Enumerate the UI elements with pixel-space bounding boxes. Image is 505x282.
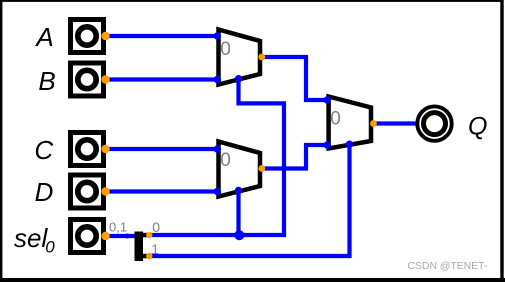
svg-text:B: B: [38, 66, 55, 96]
input pin B: [71, 63, 104, 96]
node splitter input anchor: [125, 234, 130, 239]
svg-text:A: A: [34, 22, 53, 52]
wire from pin D to U2 input 1: [105, 189, 217, 193]
node splitter bit 0: [146, 232, 152, 238]
wire U2 output to U3 input 1: [262, 145, 329, 169]
node U3 input 0: [324, 96, 331, 103]
multiplexer U3: [329, 97, 371, 149]
multiplexer U1: [219, 30, 261, 85]
node U3 select: [346, 141, 353, 148]
wire U2 select branch: [236, 189, 240, 236]
svg-text:0: 0: [220, 150, 231, 171]
node U1 input 0: [214, 32, 221, 39]
svg-text:1: 1: [151, 241, 159, 257]
splitter SP1: [135, 232, 148, 262]
svg-text:0,1: 0,1: [109, 219, 127, 234]
svg-text:0: 0: [152, 219, 160, 235]
node pin A output: [101, 32, 109, 40]
svg-text:C: C: [34, 135, 53, 165]
node pin B output: [101, 75, 109, 83]
node pin C output: [101, 145, 109, 153]
wire from pin sel0 to splitter SP1: [105, 234, 140, 238]
svg-text:D: D: [35, 177, 54, 207]
input pin D: [71, 175, 104, 208]
svg-text:CSDN @TENET-: CSDN @TENET-: [408, 261, 488, 272]
svg-text:0: 0: [330, 109, 341, 130]
output pin Q: [417, 106, 451, 140]
wire from pin B to U1 input 1: [105, 77, 217, 81]
node U3 input 1: [324, 141, 331, 148]
input pin C: [71, 133, 104, 166]
wire U1 output to U3 input 0: [262, 57, 329, 100]
node U2 output: [258, 165, 265, 172]
node U1 input 1: [214, 76, 221, 83]
input pin sel0: [71, 220, 104, 253]
multiplexer U2: [219, 142, 261, 197]
node U2 input 1: [214, 188, 221, 195]
wire from pin A to U1 input 0: [105, 34, 217, 38]
node pin sel0 output: [101, 232, 109, 240]
junction on bit 0 wire: [234, 230, 244, 240]
wire splitter bit 0 to U1 select and U2 select: [149, 77, 284, 235]
node U1 select: [235, 75, 242, 82]
node U2 input 0: [214, 145, 221, 152]
node pin D output: [101, 187, 109, 195]
svg-text:Q: Q: [468, 113, 487, 141]
node splitter bit 1: [146, 253, 152, 259]
node U3 output: [370, 120, 377, 127]
node U2 select: [235, 187, 242, 194]
wire U3 output to pin Q: [374, 121, 419, 125]
input pin A: [71, 20, 104, 53]
svg-text:0: 0: [220, 39, 231, 60]
node U1 output: [258, 54, 265, 61]
wire from pin C to U2 input 0: [105, 147, 217, 151]
wire splitter bit 1 to U3 select: [149, 143, 350, 256]
